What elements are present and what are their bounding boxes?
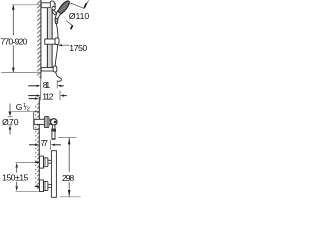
dim 112 right arrow [63, 95, 67, 97]
svg-text:Ø110: Ø110 [69, 11, 90, 21]
wall face line A [40, 0, 42, 79]
escutcheon top extension line [8, 111, 34, 113]
dimension 770-920 line upper [12, 5, 14, 36]
wire top extension line [12, 4, 41, 6]
arrow up [12, 5, 15, 10]
hose nut [55, 18, 58, 23]
wall hatch A [37, 0, 41, 78]
label 1750 arrow [59, 44, 69, 46]
dim 150±15 bottom extension [16, 190, 40, 192]
union nut [44, 117, 49, 128]
lower inlet flow arrow [36, 185, 39, 187]
upper inlet union nut [44, 158, 48, 167]
label G1/2 leader arrow [29, 98, 36, 100]
svg-text:298: 298 [62, 173, 74, 183]
outlet elbow [52, 129, 56, 132]
upper inlet stub [48, 160, 52, 163]
outlet tube [52, 132, 55, 140]
dim 112 left arrow [28, 95, 37, 97]
shower handle [55, 11, 60, 19]
svg-text:150±15: 150±15 [2, 173, 29, 183]
dim Ø70 lower line + arrow [8, 124, 13, 126]
thermostat body slab [51, 151, 56, 198]
dim 150±15 top extension [16, 162, 40, 164]
svg-text:77: 77 [40, 138, 48, 148]
dim 81 left arrow [28, 85, 37, 87]
dim 81 right arrow [60, 85, 64, 87]
svg-text:1750: 1750 [69, 43, 87, 53]
upper inlet escutcheon [40, 156, 44, 168]
label Ø110 leader lower segment [66, 21, 73, 26]
holder knob [52, 7, 55, 10]
svg-text:Ø70: Ø70 [2, 117, 19, 127]
dim 298 line lower [68, 182, 70, 197]
slider bar on rail [45, 39, 55, 44]
dimension 770-920 line lower [12, 46, 14, 73]
dim 112 right extension [59, 91, 61, 101]
upper inlet flow arrow [36, 161, 39, 163]
outlet stem [52, 125, 55, 130]
dim Ø70 upper line + arrow [9, 104, 11, 113]
wall hatch B [35, 103, 39, 189]
dim 150±15 line + arrows [15, 163, 18, 168]
rail tube [47, 8, 53, 68]
svg-text:112: 112 [42, 91, 54, 101]
wall extension below (dims 81/112) [40, 79, 42, 101]
wire bottom extension line [1, 72, 40, 74]
dim 298 line upper [68, 138, 70, 172]
hand shower head [56, 0, 71, 16]
knurl adapter [49, 119, 51, 124]
knob circle [51, 119, 57, 125]
arrow down [12, 68, 15, 73]
lower inlet escutcheon [40, 180, 44, 192]
holder arm [52, 10, 57, 15]
wall face line B [38, 97, 40, 191]
label Ø110 leader line [69, 3, 84, 9]
dim 298 top extension [58, 137, 76, 139]
svg-text:G: G [16, 102, 23, 112]
lower inlet stub [48, 184, 52, 187]
dim 298 bottom extension [60, 196, 81, 198]
outlet pipe from wall [34, 119, 44, 124]
bracket nub [54, 3, 55, 7]
top bracket [41, 1, 54, 10]
hose [55, 24, 61, 82]
slider knob [55, 38, 59, 45]
escutcheon (side view) [34, 112, 40, 130]
dim 81 right extension [56, 81, 58, 89]
lower inlet union nut [44, 182, 48, 191]
bottom bracket [41, 66, 57, 72]
label Ø110 leader arrow [84, 1, 89, 9]
svg-text:770-920: 770-920 [0, 37, 27, 47]
svg-text:81: 81 [43, 80, 51, 90]
